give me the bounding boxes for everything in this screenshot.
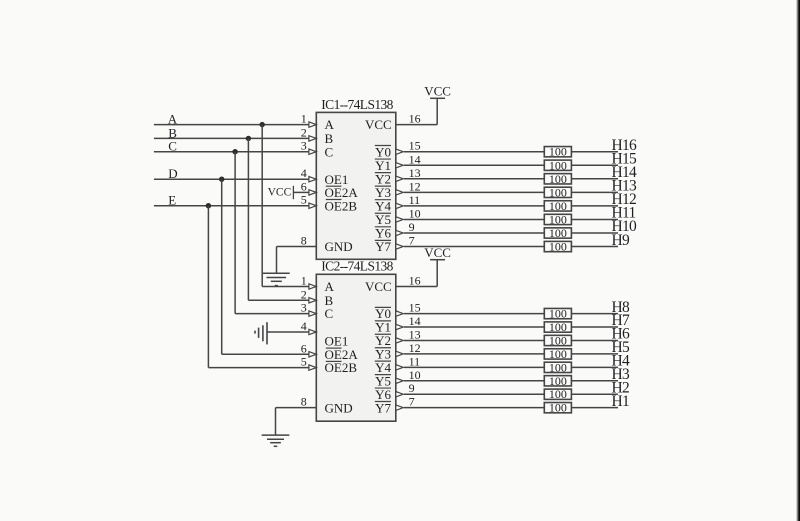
wire input D to IC1 bbox=[154, 178, 309, 180]
IC2 input pin name B bbox=[325, 293, 334, 308]
svg-text:OE2B: OE2B bbox=[325, 198, 358, 213]
svg-text:VCC: VCC bbox=[424, 84, 451, 99]
svg-text:9: 9 bbox=[409, 220, 415, 234]
resistor R14 value 100 bbox=[544, 172, 571, 186]
svg-text:100: 100 bbox=[549, 374, 567, 388]
IC1 input arrowhead pin 3 bbox=[309, 149, 316, 154]
svg-text:A: A bbox=[325, 279, 335, 294]
IC2 input arrowhead pin 6 bbox=[309, 352, 316, 357]
wire net E into IC2 bbox=[208, 367, 308, 369]
wire net D vertical drop to IC2 bbox=[221, 179, 223, 354]
IC2 output pin name Y1 with overline bbox=[375, 320, 391, 335]
svg-text:100: 100 bbox=[549, 360, 567, 374]
IC2 output pin name Y2 with overline bbox=[375, 333, 391, 348]
resistor R9 value 100 bbox=[544, 240, 571, 254]
IC1 pin number 6 bbox=[301, 179, 307, 193]
IC1 pin number 15 bbox=[409, 139, 421, 153]
power VCC symbol feeding IC2 pin 16 bbox=[396, 245, 451, 287]
node H14 label bbox=[612, 164, 638, 181]
IC1 output pin name Y1 with overline bbox=[375, 158, 391, 173]
svg-text:100: 100 bbox=[549, 333, 567, 347]
junction on net D bbox=[219, 177, 224, 182]
svg-text:VCC: VCC bbox=[365, 117, 392, 132]
node H9 label bbox=[612, 232, 630, 249]
IC1 pin number 9 bbox=[409, 220, 415, 234]
svg-text:100: 100 bbox=[549, 387, 567, 401]
IC1 output arrowhead pin 10 bbox=[396, 217, 403, 222]
IC2 pin number 6 bbox=[301, 341, 307, 355]
node H6 label bbox=[612, 326, 630, 343]
junction on net E bbox=[206, 203, 211, 208]
node D label bbox=[168, 166, 177, 181]
wire net D into IC2 bbox=[222, 353, 309, 355]
svg-text:11: 11 bbox=[409, 354, 421, 368]
svg-text:100: 100 bbox=[549, 307, 567, 321]
wire resistor to lamp node H11 bbox=[571, 218, 618, 220]
resistor R15 value 100 bbox=[544, 158, 571, 172]
power VCC stub at IC1 pin 6 bbox=[268, 186, 309, 199]
resistor R12 value 100 bbox=[544, 199, 571, 213]
IC1 output arrowhead pin 13 bbox=[396, 176, 403, 181]
svg-text:12: 12 bbox=[409, 179, 421, 193]
IC1 input arrowhead pin 5 bbox=[309, 203, 316, 208]
IC2 pin name GND bbox=[325, 400, 353, 415]
wire resistor to lamp node H7 bbox=[571, 326, 618, 328]
wire net C into IC2 bbox=[235, 313, 309, 315]
svg-text:15: 15 bbox=[409, 139, 421, 153]
svg-text:GND: GND bbox=[325, 400, 353, 415]
svg-text:16: 16 bbox=[409, 112, 421, 126]
wire IC2 Y6 to resistor bbox=[404, 393, 544, 395]
junction on net B bbox=[246, 136, 251, 141]
IC1 output pin name Y5 with overline bbox=[375, 212, 391, 227]
IC1 pin name GND bbox=[325, 239, 353, 254]
IC2 output arrowhead pin 10 bbox=[396, 378, 403, 383]
IC1 pin number 8 bbox=[301, 234, 307, 248]
IC2 pin number 10 bbox=[409, 368, 421, 382]
IC2 pin number 11 bbox=[409, 354, 421, 368]
svg-text:3: 3 bbox=[301, 139, 307, 153]
wire input B to IC1 bbox=[154, 137, 309, 139]
resistor R16 value 100 bbox=[544, 145, 571, 159]
wire resistor to lamp node H3 bbox=[571, 380, 618, 382]
svg-text:IC1--74LS138: IC1--74LS138 bbox=[321, 97, 393, 112]
ground bbox=[263, 247, 316, 286]
IC2 input arrowhead pin 4 bbox=[309, 329, 316, 334]
svg-text:15: 15 bbox=[409, 301, 421, 315]
node H3 label bbox=[612, 366, 630, 383]
IC2 enable pin name OE1 bbox=[325, 334, 349, 349]
svg-text:100: 100 bbox=[549, 158, 567, 172]
ground (rotated) at IC2 pin 4 bbox=[255, 322, 309, 344]
IC1 pin name VCC bbox=[365, 117, 392, 132]
IC1 output arrowhead pin 11 bbox=[396, 203, 403, 208]
wire input E to IC1 bbox=[154, 205, 309, 207]
junction on net A bbox=[260, 122, 265, 127]
svg-text:100: 100 bbox=[549, 240, 567, 254]
IC1 input pin name B bbox=[325, 131, 334, 146]
svg-text:5: 5 bbox=[301, 193, 307, 207]
svg-text:2: 2 bbox=[301, 125, 307, 139]
svg-text:100: 100 bbox=[549, 226, 567, 240]
IC2 pin number 4 bbox=[301, 319, 307, 333]
svg-text:4: 4 bbox=[301, 166, 307, 180]
wire net E vertical drop to IC2 bbox=[207, 206, 209, 368]
svg-text:14: 14 bbox=[409, 152, 421, 166]
resistor R1 value 100 bbox=[544, 401, 571, 415]
wire IC1 Y0 to resistor bbox=[404, 151, 544, 153]
wire resistor to lamp node H14 bbox=[571, 178, 618, 180]
svg-text:100: 100 bbox=[549, 320, 567, 334]
node H4 label bbox=[612, 353, 630, 370]
IC1 input arrowhead pin 2 bbox=[309, 136, 316, 141]
IC2 enable pin name OE2A with overline on OE bbox=[325, 347, 359, 362]
IC1 pin number 11 bbox=[409, 193, 421, 207]
svg-text:13: 13 bbox=[409, 327, 421, 341]
svg-text:8: 8 bbox=[301, 234, 307, 248]
IC2 output pin name Y7 with overline bbox=[375, 400, 392, 415]
IC1 output pin name Y3 with overline bbox=[375, 185, 391, 200]
IC2 input pin name A bbox=[325, 279, 335, 294]
IC1 pin number 1 bbox=[301, 112, 307, 126]
IC2 pin number 1 bbox=[301, 274, 307, 288]
IC1 input arrowhead pin 4 bbox=[309, 177, 316, 182]
svg-text:GND: GND bbox=[325, 239, 353, 254]
wire resistor to lamp node H12 bbox=[571, 205, 618, 207]
IC2 output arrowhead pin 13 bbox=[396, 338, 403, 343]
wire input C to IC1 bbox=[154, 151, 309, 153]
svg-text:13: 13 bbox=[409, 166, 421, 180]
svg-text:10: 10 bbox=[409, 368, 421, 382]
wire IC1 Y6 to resistor bbox=[404, 232, 544, 234]
IC1 enable pin name OE2A with overline on OE bbox=[325, 185, 359, 200]
IC2 output pin name Y3 with overline bbox=[375, 347, 391, 362]
IC1 output arrowhead pin 14 bbox=[396, 163, 403, 168]
wire resistor to lamp node H1 bbox=[571, 407, 618, 409]
IC1 pin number 4 bbox=[301, 166, 307, 180]
resistor R7 value 100 bbox=[544, 320, 571, 334]
node H11 label bbox=[612, 205, 636, 222]
svg-text:14: 14 bbox=[409, 314, 421, 328]
IC1 pin number 2 bbox=[301, 125, 307, 139]
svg-text:VCC: VCC bbox=[268, 186, 292, 198]
IC1 output pin name Y0 with overline bbox=[375, 144, 391, 159]
svg-text:100: 100 bbox=[549, 145, 567, 159]
IC1 enable pin name OE2B with overline on OE bbox=[325, 198, 358, 213]
IC1 pin number 3 bbox=[301, 139, 307, 153]
IC1 input pin name C bbox=[325, 144, 334, 159]
IC1 input arrowhead pin 1 bbox=[309, 122, 316, 127]
wire net B vertical drop to IC2 bbox=[247, 138, 249, 300]
svg-text:Y7: Y7 bbox=[375, 239, 391, 254]
IC2 input arrowhead pin 2 bbox=[309, 298, 316, 303]
IC1 output pin name Y2 with overline bbox=[375, 171, 391, 186]
IC1 pin number 12 bbox=[409, 179, 421, 193]
IC1 pin number 5 bbox=[301, 193, 307, 207]
IC2 output pin name Y5 with overline bbox=[375, 373, 391, 388]
svg-text:3: 3 bbox=[301, 301, 307, 315]
wire IC1 Y1 to resistor bbox=[404, 164, 544, 166]
svg-text:100: 100 bbox=[549, 212, 567, 226]
IC2 output pin name Y0 with overline bbox=[375, 306, 391, 321]
IC2 output arrowhead pin 7 bbox=[396, 405, 403, 410]
scan edge shading right border bbox=[796, 0, 800, 521]
svg-text:7: 7 bbox=[409, 234, 415, 248]
IC1 pin number 16 bbox=[409, 112, 421, 126]
svg-text:C: C bbox=[325, 144, 334, 159]
junction on net C bbox=[232, 149, 237, 154]
IC2 pin number 2 bbox=[301, 287, 307, 301]
resistor R2 value 100 bbox=[544, 387, 571, 401]
wire resistor to lamp node H5 bbox=[571, 353, 618, 355]
IC2 pin number 13 bbox=[409, 327, 421, 341]
IC2 pin name VCC bbox=[365, 279, 392, 294]
svg-text:16: 16 bbox=[409, 274, 421, 288]
IC1 pin number 14 bbox=[409, 152, 421, 166]
IC2 input arrowhead pin 1 bbox=[309, 284, 316, 289]
IC2 pin number 16 bbox=[409, 274, 421, 288]
IC2 input arrowhead pin 5 bbox=[309, 365, 316, 370]
svg-text:5: 5 bbox=[301, 355, 307, 369]
wire input A to IC1 bbox=[154, 124, 309, 126]
wire IC1 Y5 to resistor bbox=[404, 218, 544, 220]
svg-text:11: 11 bbox=[409, 193, 421, 207]
node H1 label bbox=[612, 393, 630, 410]
wire IC1 Y2 to resistor bbox=[404, 178, 544, 180]
wire resistor to lamp node H2 bbox=[571, 393, 618, 395]
IC1 output pin name Y7 with overline bbox=[375, 239, 392, 254]
wire IC2 Y1 to resistor bbox=[404, 326, 544, 328]
IC2 input arrowhead pin 3 bbox=[309, 311, 316, 316]
wire resistor to lamp node H6 bbox=[571, 339, 618, 341]
svg-text:7: 7 bbox=[409, 395, 415, 409]
svg-text:1: 1 bbox=[301, 112, 307, 126]
node B label bbox=[168, 126, 177, 141]
svg-text:C: C bbox=[325, 306, 334, 321]
wire IC2 Y5 to resistor bbox=[404, 380, 544, 382]
node H10 label bbox=[612, 218, 638, 235]
wire IC1 Y4 to resistor bbox=[404, 205, 544, 207]
node H13 label bbox=[612, 178, 638, 195]
IC IC2 74LS138 body bbox=[316, 274, 396, 421]
svg-text:H9: H9 bbox=[612, 232, 630, 249]
resistor R5 value 100 bbox=[544, 347, 571, 361]
wire resistor to lamp node H8 bbox=[571, 313, 618, 315]
IC1 input arrowhead pin 6 bbox=[309, 190, 316, 195]
IC2 pin number 7 bbox=[409, 395, 415, 409]
IC2 pin number 8 bbox=[301, 395, 307, 409]
IC2 output arrowhead pin 14 bbox=[396, 324, 403, 329]
svg-text:6: 6 bbox=[301, 179, 307, 193]
ground bbox=[262, 408, 317, 447]
wire IC1 Y3 to resistor bbox=[404, 191, 544, 193]
wire resistor to lamp node H9 bbox=[571, 246, 618, 248]
svg-text:A: A bbox=[325, 117, 335, 132]
svg-text:2: 2 bbox=[301, 287, 307, 301]
resistor R6 value 100 bbox=[544, 333, 571, 347]
node H8 label bbox=[612, 299, 630, 316]
svg-text:100: 100 bbox=[549, 199, 567, 213]
IC1 output arrowhead pin 12 bbox=[396, 190, 403, 195]
IC1 output pin name Y4 with overline bbox=[375, 199, 392, 214]
wire IC2 Y4 to resistor bbox=[404, 366, 544, 368]
IC2 pin number 12 bbox=[409, 341, 421, 355]
node H12 label bbox=[612, 191, 637, 208]
power VCC symbol feeding IC1 pin 16 bbox=[396, 84, 451, 125]
IC2 pin number 3 bbox=[301, 301, 307, 315]
svg-text:9: 9 bbox=[409, 381, 415, 395]
wire IC2 Y2 to resistor bbox=[404, 339, 544, 341]
node H2 label bbox=[612, 379, 630, 396]
IC1 output arrowhead pin 9 bbox=[396, 230, 403, 235]
resistor R8 value 100 bbox=[544, 307, 571, 321]
wire net A vertical drop to IC2 bbox=[261, 125, 263, 287]
wire resistor to lamp node H16 bbox=[571, 151, 618, 153]
node E label bbox=[168, 192, 176, 207]
wire resistor to lamp node H13 bbox=[571, 191, 618, 193]
wire IC2 Y0 to resistor bbox=[404, 313, 544, 315]
wire net C vertical drop to IC2 bbox=[234, 152, 236, 314]
wire IC2 Y3 to resistor bbox=[404, 353, 544, 355]
IC1 pin number 10 bbox=[409, 206, 421, 220]
resistor R4 value 100 bbox=[544, 360, 571, 374]
IC2 pin number 15 bbox=[409, 301, 421, 315]
node C label bbox=[168, 138, 177, 153]
wire IC2 Y7 to resistor bbox=[404, 407, 544, 409]
svg-text:4: 4 bbox=[301, 319, 307, 333]
IC IC2 designator label IC2-74LS138 bbox=[321, 259, 393, 274]
IC2 enable pin name OE2B with overline on OE bbox=[325, 360, 358, 375]
wire resistor to lamp node H4 bbox=[571, 366, 618, 368]
resistor R13 value 100 bbox=[544, 185, 571, 199]
resistor R11 value 100 bbox=[544, 212, 571, 226]
svg-text:VCC: VCC bbox=[365, 279, 392, 294]
resistor R3 value 100 bbox=[544, 374, 571, 388]
node A label bbox=[168, 112, 178, 127]
IC1 pin number 13 bbox=[409, 166, 421, 180]
IC2 output pin name Y4 with overline bbox=[375, 360, 392, 375]
svg-text:100: 100 bbox=[549, 401, 567, 415]
svg-text:100: 100 bbox=[549, 347, 567, 361]
IC1 input pin name A bbox=[325, 117, 335, 132]
svg-text:12: 12 bbox=[409, 341, 421, 355]
IC2 input pin name C bbox=[325, 306, 334, 321]
IC1 enable pin name OE1 bbox=[325, 172, 349, 187]
svg-text:8: 8 bbox=[301, 395, 307, 409]
IC1 pin number 7 bbox=[409, 234, 415, 248]
IC2 output arrowhead pin 11 bbox=[396, 365, 403, 370]
IC2 output arrowhead pin 15 bbox=[396, 311, 403, 316]
IC IC1 designator label IC1-74LS138 bbox=[321, 97, 393, 112]
wire net A into IC2 bbox=[262, 286, 309, 288]
wire resistor to lamp node H10 bbox=[571, 232, 618, 234]
svg-text:10: 10 bbox=[409, 206, 421, 220]
svg-text:6: 6 bbox=[301, 341, 307, 355]
IC2 output arrowhead pin 9 bbox=[396, 392, 403, 397]
svg-text:1: 1 bbox=[301, 274, 307, 288]
IC2 pin number 14 bbox=[409, 314, 421, 328]
svg-text:H1: H1 bbox=[612, 393, 630, 410]
wire resistor to lamp node H15 bbox=[571, 164, 618, 166]
IC1 output pin name Y6 with overline bbox=[375, 226, 392, 241]
svg-text:IC2--74LS138: IC2--74LS138 bbox=[321, 259, 393, 274]
svg-text:OE2B: OE2B bbox=[325, 360, 358, 375]
IC2 output arrowhead pin 12 bbox=[396, 351, 403, 356]
wire IC1 Y7 to resistor bbox=[404, 246, 544, 248]
IC2 pin number 5 bbox=[301, 355, 307, 369]
node H7 label bbox=[612, 312, 630, 329]
node H16 label bbox=[612, 137, 638, 154]
svg-text:Y7: Y7 bbox=[375, 400, 391, 415]
node H5 label bbox=[612, 339, 630, 356]
IC1 output arrowhead pin 7 bbox=[396, 244, 403, 249]
resistor R10 value 100 bbox=[544, 226, 571, 240]
node H15 label bbox=[612, 150, 638, 167]
IC2 output pin name Y6 with overline bbox=[375, 387, 392, 402]
svg-text:100: 100 bbox=[549, 185, 567, 199]
IC2 pin number 9 bbox=[409, 381, 415, 395]
IC1 output arrowhead pin 15 bbox=[396, 149, 403, 154]
wire net B into IC2 bbox=[248, 299, 308, 301]
IC IC1 74LS138 body bbox=[316, 112, 396, 259]
svg-text:100: 100 bbox=[549, 172, 567, 186]
